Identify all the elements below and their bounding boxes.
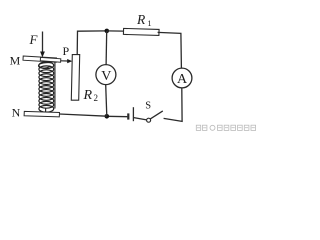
node bottom junction bbox=[105, 114, 110, 119]
wire bbox=[77, 31, 107, 55]
battery short plate bbox=[127, 113, 129, 119]
wire bbox=[164, 88, 183, 122]
node top junction bbox=[105, 29, 110, 34]
coil right return bbox=[54, 63, 56, 109]
plate N bar bbox=[24, 111, 59, 117]
wire bbox=[105, 31, 108, 65]
plate M bar bbox=[23, 56, 57, 62]
wiper P arrow bbox=[61, 60, 68, 62]
switch S lever bbox=[150, 111, 163, 119]
watermark bbox=[196, 125, 255, 130]
svg-text:R: R bbox=[136, 12, 146, 27]
wire bbox=[106, 85, 107, 116]
voltmeter V bbox=[96, 65, 116, 85]
svg-text:P: P bbox=[62, 44, 69, 58]
link rod to P bbox=[40, 57, 61, 62]
svg-text:S: S bbox=[145, 100, 151, 111]
coil spring loops bbox=[39, 62, 54, 112]
switch S pivot bbox=[147, 118, 151, 122]
svg-text:M: M bbox=[10, 54, 21, 68]
wire bbox=[158, 32, 182, 68]
svg-text:V: V bbox=[101, 69, 111, 84]
svg-text:F: F bbox=[29, 32, 39, 47]
wire bbox=[134, 118, 147, 120]
wire bbox=[59, 114, 107, 116]
svg-text:N: N bbox=[12, 106, 21, 120]
svg-text:1: 1 bbox=[147, 18, 151, 28]
svg-text:A: A bbox=[177, 72, 188, 87]
resistor R1 bbox=[123, 28, 159, 35]
battery long plate bbox=[132, 107, 134, 121]
rheostat R2 bbox=[71, 55, 79, 101]
force F arrow bbox=[42, 32, 44, 53]
wire bbox=[107, 115, 128, 117]
wire bbox=[107, 30, 124, 32]
svg-text:R: R bbox=[83, 88, 93, 103]
coil top hook bbox=[38, 63, 52, 68]
svg-text:2: 2 bbox=[94, 93, 99, 103]
ammeter A bbox=[172, 68, 192, 88]
coil bottom lead bbox=[45, 109, 47, 113]
